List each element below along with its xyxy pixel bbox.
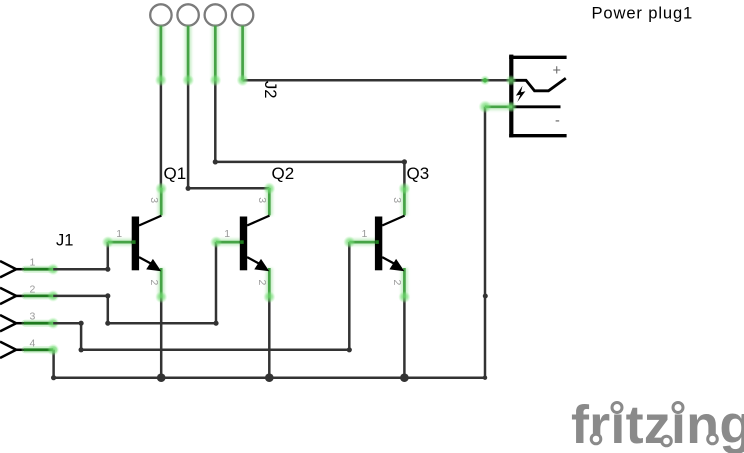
svg-text:Q1: Q1 <box>164 164 187 183</box>
svg-text:4: 4 <box>30 337 36 349</box>
svg-text:2: 2 <box>30 283 36 295</box>
svg-text:Q2: Q2 <box>272 164 295 183</box>
svg-text:1: 1 <box>224 228 230 240</box>
svg-text:2: 2 <box>391 280 403 286</box>
svg-text:Power plug1: Power plug1 <box>592 4 694 23</box>
svg-text:3: 3 <box>148 197 160 203</box>
svg-text:2: 2 <box>148 280 160 286</box>
svg-text:+: + <box>553 63 561 79</box>
svg-text:3: 3 <box>30 311 36 323</box>
svg-text:Q3: Q3 <box>407 164 430 183</box>
svg-text:1: 1 <box>116 228 122 240</box>
svg-text:1: 1 <box>30 257 36 269</box>
svg-text:3: 3 <box>256 197 268 203</box>
svg-text:-: - <box>555 113 560 129</box>
svg-text:J2: J2 <box>261 81 280 99</box>
svg-text:3: 3 <box>391 197 403 203</box>
svg-text:2: 2 <box>256 280 268 286</box>
svg-text:1: 1 <box>362 228 368 240</box>
svg-text:J1: J1 <box>56 232 73 250</box>
